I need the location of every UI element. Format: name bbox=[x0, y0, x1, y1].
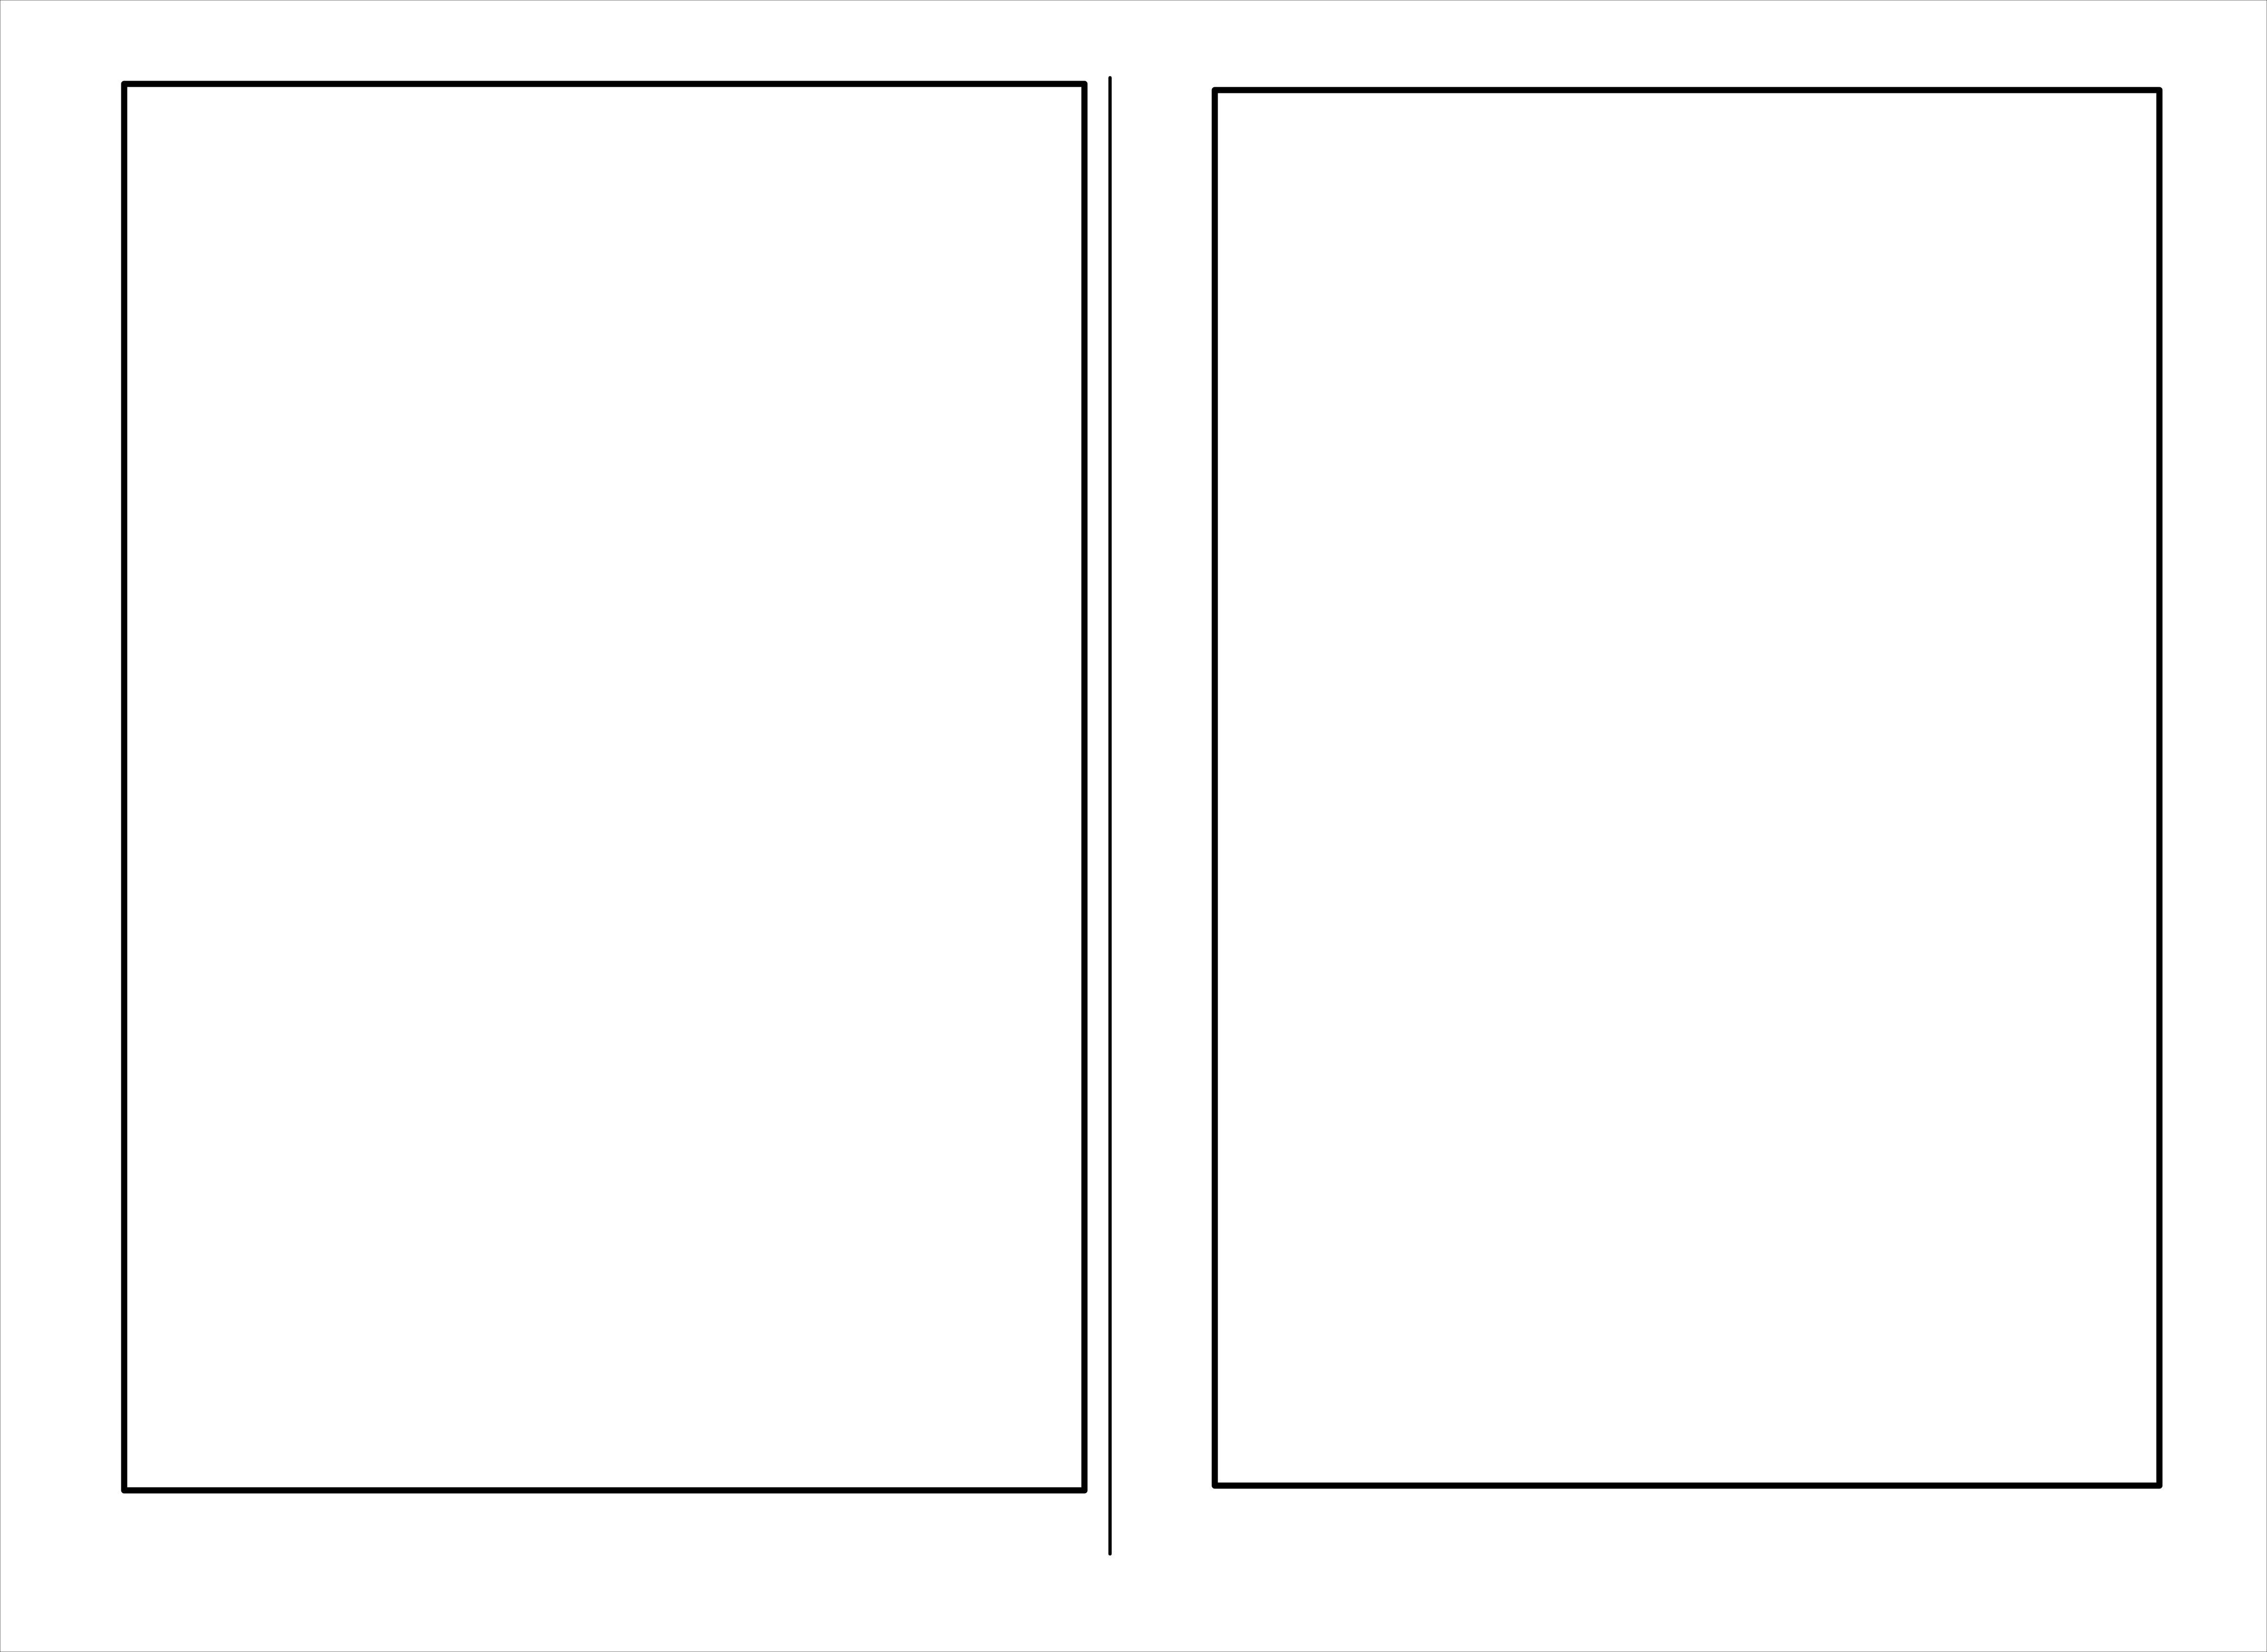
LEFT PAGE bbox=[124, 84, 1084, 1490]
right page frame bbox=[1215, 90, 2159, 1486]
RIGHT PAGE bbox=[1215, 90, 2159, 1486]
left page frame bbox=[124, 84, 1084, 1490]
divider line between scanned pages bbox=[1109, 78, 1112, 1554]
